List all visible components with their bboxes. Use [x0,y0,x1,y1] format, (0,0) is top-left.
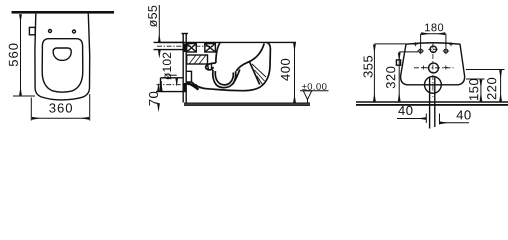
inlet centerline dashed [157,45,215,47]
inlet pipe o55 [154,41,184,43]
center axis dashed [432,44,434,98]
sump outer [213,70,236,88]
back underside thick section [187,83,199,90]
top corner cross right [449,42,453,46]
front rim wedge inner line [250,62,260,85]
floor (side) [184,102,310,104]
water area (plan) [53,48,71,60]
dim 40 right [440,114,470,125]
wall (plan) [12,11,115,14]
back drain stub [187,71,192,82]
level mark +-0.00 [302,83,327,90]
small cross right [444,66,448,70]
dim 150 [466,79,485,101]
seat inner rim (plan) [42,39,83,92]
seat hinge hole right [73,30,76,33]
rim channel [208,64,212,70]
toilet outer outline (plan) [35,14,90,100]
dim 220 [466,70,505,102]
side button (plan) [29,27,35,34]
fixing hole left [419,49,423,53]
fixing bracket block A [187,44,197,52]
dim o102 [161,75,176,91]
drain pipe o102 [161,77,184,79]
front face outer [262,42,271,86]
pipe below floor [429,127,431,129]
cistern block [187,55,208,64]
front rim hatch [252,64,266,85]
dim 320 [399,52,418,102]
fixing hole right [444,49,448,53]
bowl back inner wall [216,43,220,63]
dim 40 left [397,114,426,124]
outlet pipe circle [425,76,442,93]
toilet top line [159,41,296,43]
sump inner [215,71,233,85]
small cross left [422,66,426,70]
wall (side) [182,34,184,103]
dim 70 [158,85,160,110]
dim 180 [421,34,446,48]
side button (rear) [396,60,400,65]
dim o55 [158,5,160,56]
wall fill at pipe crossings [183,44,186,52]
fixing bracket block B [205,44,216,52]
underside outer shell [192,82,262,91]
dim 355 [374,44,406,102]
seat hinge hole left [49,30,52,33]
bowl front inner surface [236,44,264,72]
floor (rear) [356,101,508,103]
drain pipe centerline [157,84,198,86]
dim 560 [13,14,35,96]
toilet body (rear) [401,43,465,85]
trap weir line [233,70,240,85]
dim 360 [31,94,89,121]
dim 400 [294,43,296,103]
rim nozzle hook [206,63,216,70]
outlet pipe walls [429,77,431,127]
inlet circle top center [430,46,436,52]
mid circle (outlet horizontal option) [429,63,439,73]
top corner cross left [414,42,418,46]
